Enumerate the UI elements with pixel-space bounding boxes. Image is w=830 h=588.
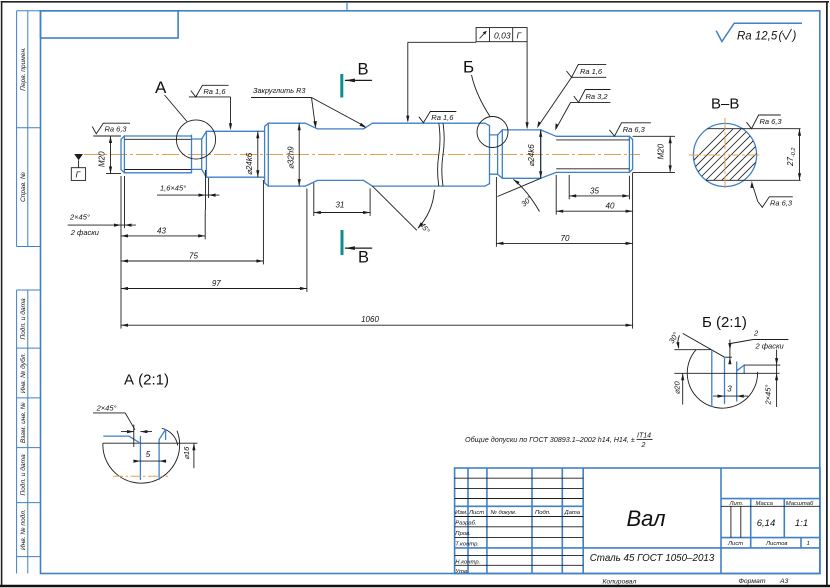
dim d24k6 right	[527, 130, 542, 178]
svg-text:Инв. № дубл.: Инв. № дубл.	[19, 353, 27, 394]
A centerline	[113, 475, 168, 477]
Б dim 2x45 right	[776, 350, 778, 408]
svg-text:2×45°: 2×45°	[764, 385, 773, 406]
detail circle B(Б)	[477, 117, 508, 148]
svg-text:Копировал: Копировал	[603, 579, 637, 586]
shaft outline left thread section M20	[121, 135, 192, 173]
shaft axis centerline	[84, 154, 640, 156]
detail circle A	[176, 120, 215, 159]
extension lines below shaft	[121, 173, 633, 329]
svg-text:Листов: Листов	[765, 541, 787, 547]
svg-text:Ra 3,2: Ra 3,2	[586, 92, 609, 101]
dim 1,6x45	[157, 170, 219, 210]
A thread surface line	[103, 442, 140, 444]
note Закруглить R3	[251, 86, 366, 128]
top-left designation box 70x14	[41, 11, 179, 38]
shaft section d24k6 left	[206, 131, 264, 177]
svg-text:Т.контр.: Т.контр.	[455, 542, 479, 548]
top fold mark	[346, 2, 348, 11]
svg-text:А3: А3	[779, 578, 789, 585]
roughness Ra 1,6 left with leader	[189, 85, 232, 130]
thread minor diameter lines left	[124, 139, 191, 169]
roughness Ra 3,2 right stack	[555, 90, 610, 131]
svg-text:М20: М20	[98, 151, 107, 167]
svg-text:Б: Б	[463, 58, 474, 77]
dim d24k6 left	[245, 131, 259, 177]
big middle section	[372, 123, 489, 186]
datum symbol Г	[71, 154, 85, 180]
corner roughness Ra 12,5	[716, 23, 802, 42]
B-B dim 27	[799, 129, 801, 181]
leader Б	[472, 75, 491, 117]
thread minor diameter lines right	[556, 140, 629, 169]
svg-text:Ra 1,6: Ra 1,6	[203, 87, 226, 96]
leader A	[165, 95, 188, 122]
svg-text:2×45°: 2×45°	[69, 213, 90, 222]
svg-text:№ докум.: № докум.	[491, 509, 517, 516]
svg-text:Б (2:1): Б (2:1)	[702, 314, 747, 331]
svg-text:⌀24k6: ⌀24k6	[527, 144, 536, 167]
dim 2x45 2 фаски	[68, 176, 136, 237]
svg-text:Общие допуски по ГОСТ 30893.1–: Общие допуски по ГОСТ 30893.1–2002 h14, …	[465, 435, 635, 444]
dim 70	[496, 234, 632, 245]
Б angle arc arrow	[678, 335, 680, 348]
Б 30 deg slope line	[683, 333, 725, 357]
detail A view	[93, 372, 198, 484]
svg-text:Лит.: Лит.	[729, 501, 744, 507]
B-B circle	[693, 123, 756, 186]
svg-text:Подп.: Подп.	[535, 510, 551, 516]
runout tolerance frame 0,03	[406, 28, 529, 130]
svg-text:Масса: Масса	[756, 501, 774, 507]
svg-text:Н.контр.: Н.контр.	[455, 560, 480, 566]
title block header texts	[454, 501, 814, 575]
dim M20 right	[633, 136, 675, 172]
dim M20 left	[93, 136, 121, 174]
A boundary arc	[103, 431, 180, 483]
svg-text:⌀32h9: ⌀32h9	[287, 146, 296, 169]
Б dim 3	[713, 395, 748, 397]
svg-text:Ra 12,5: Ra 12,5	[737, 31, 778, 43]
svg-text:2: 2	[641, 442, 646, 449]
A groove walls	[139, 437, 141, 480]
title block frame	[455, 468, 820, 574]
svg-text:Перв. примен.: Перв. примен.	[20, 47, 27, 91]
svg-text:3: 3	[727, 385, 732, 394]
svg-text:Разраб.: Разраб.	[455, 521, 476, 527]
roughness Ra 1,6 on big section	[419, 112, 456, 123]
svg-text:Подп. и дата: Подп. и дата	[19, 298, 27, 340]
svg-text:43: 43	[157, 226, 166, 235]
relief neck with rounds R3	[305, 123, 372, 186]
svg-text:Закруглить R3: Закруглить R3	[253, 86, 305, 95]
B-B roughness top Ra 6,3	[747, 115, 781, 129]
A dim d16	[140, 442, 197, 444]
roughness Ra 6,3 on right thread	[609, 123, 651, 136]
svg-text:Формат: Формат	[739, 578, 766, 585]
svg-text:97: 97	[212, 279, 221, 288]
dim 1060	[121, 315, 633, 327]
section B-B view	[662, 96, 830, 208]
right thread section M20	[556, 136, 632, 172]
dim 35	[569, 186, 629, 197]
svg-text:Масштаб: Масштаб	[786, 501, 814, 507]
roughness Ra 1,6 right stack	[537, 64, 606, 128]
svg-text:IT14: IT14	[637, 433, 651, 440]
svg-text:Подп. и дата: Подп. и дата	[19, 454, 27, 496]
svg-text:Ra 6,3: Ra 6,3	[105, 125, 128, 134]
B-B hatch	[662, 114, 830, 192]
svg-text:70: 70	[561, 234, 570, 243]
B-B roughness bottom Ra 6,3	[750, 181, 753, 188]
Б right surface lines	[744, 364, 780, 366]
roughness Ra 6,3 left	[92, 123, 130, 136]
svg-text:0,03: 0,03	[494, 31, 511, 41]
B-B centerlines	[689, 154, 761, 156]
svg-text:1: 1	[807, 541, 810, 547]
svg-text:⌀24k6: ⌀24k6	[245, 152, 254, 175]
svg-text:Утв.: Утв.	[454, 569, 468, 575]
detail Б view	[667, 314, 788, 408]
svg-text:35: 35	[590, 186, 599, 195]
A top right surface arc	[162, 428, 178, 445]
Б groove bottom	[725, 356, 733, 358]
svg-text:Ra 1,6: Ra 1,6	[580, 67, 603, 76]
svg-text:Лист: Лист	[727, 541, 743, 547]
Б boundary arc	[687, 350, 757, 408]
step to d32h9	[265, 123, 269, 186]
dim 43	[121, 226, 205, 237]
svg-text:Пров.: Пров.	[455, 531, 471, 537]
svg-text:Вал: Вал	[626, 506, 665, 531]
svg-text:2 фаски: 2 фаски	[70, 228, 100, 237]
general tolerances note	[465, 433, 653, 450]
A thread minor line blue	[104, 435, 129, 437]
svg-text:31: 31	[335, 200, 344, 209]
shaft section d32h9	[268, 123, 305, 186]
cone angle 45	[372, 186, 434, 235]
svg-text:А (2:1): А (2:1)	[124, 372, 169, 389]
Б dim d20	[682, 373, 684, 404]
svg-text:2×45°: 2×45°	[96, 404, 117, 413]
Б dim 2 depth	[729, 340, 731, 365]
svg-text:В: В	[358, 61, 369, 79]
svg-text:М20: М20	[657, 143, 666, 159]
svg-text:1:1: 1:1	[795, 518, 808, 529]
svg-text:Дата: Дата	[564, 510, 581, 516]
dim 75	[121, 251, 263, 262]
svg-text:Сталь 45 ГОСТ 1050–2013: Сталь 45 ГОСТ 1050–2013	[590, 553, 715, 564]
section mark В top	[342, 61, 372, 98]
left column upper boxes	[17, 11, 41, 247]
svg-text:Лист: Лист	[468, 510, 484, 516]
svg-text:Справ. №: Справ. №	[20, 172, 27, 202]
svg-text:⌀20: ⌀20	[673, 381, 682, 395]
svg-text:1060: 1060	[361, 315, 379, 324]
right groove at step	[490, 130, 503, 178]
svg-text:75: 75	[189, 251, 198, 260]
dim 31	[314, 200, 370, 214]
svg-text:1,6×45°: 1,6×45°	[160, 184, 186, 193]
Б groove walls blue	[711, 350, 713, 407]
Б horizontal surface line	[674, 349, 712, 351]
break lines on middle section	[438, 123, 445, 186]
left thread relief groove	[192, 131, 207, 177]
svg-text:2: 2	[753, 329, 759, 338]
svg-text:Ra 6,3: Ra 6,3	[770, 199, 793, 208]
svg-text:⌀16: ⌀16	[182, 446, 191, 460]
svg-text:Ra 1,6: Ra 1,6	[431, 113, 454, 122]
svg-text:40: 40	[606, 201, 615, 210]
cone angle 30	[498, 178, 541, 211]
svg-text:Взам. инв. №: Взам. инв. №	[20, 402, 27, 443]
svg-text:2 фаски: 2 фаски	[755, 342, 785, 351]
A dim chamfer small	[121, 431, 134, 433]
svg-text:Ra 6,3: Ra 6,3	[760, 117, 783, 126]
section mark В bottom	[342, 230, 372, 267]
svg-text:Ra 6,3: Ra 6,3	[623, 125, 646, 134]
dim 97	[121, 279, 307, 290]
svg-text:Инв. № подл.: Инв. № подл.	[19, 509, 27, 550]
svg-text:5: 5	[146, 450, 151, 459]
dim 40	[556, 201, 632, 212]
shaft section d24k6 right	[502, 130, 540, 178]
title block thin rows	[455, 478, 820, 565]
Б chamfer blue	[737, 365, 745, 371]
svg-text:А: А	[155, 78, 167, 97]
svg-text:В–В: В–В	[711, 96, 739, 113]
A dim 5	[134, 460, 166, 462]
cone 30 deg	[541, 130, 557, 178]
svg-text:Изм.: Изм.	[455, 510, 468, 516]
dim d32h9	[287, 123, 301, 186]
svg-text:В: В	[358, 249, 369, 267]
B-B flats	[708, 128, 801, 130]
svg-text:6,14: 6,14	[757, 518, 776, 529]
left column lower boxes	[17, 290, 41, 574]
A right chamfer	[159, 430, 166, 440]
